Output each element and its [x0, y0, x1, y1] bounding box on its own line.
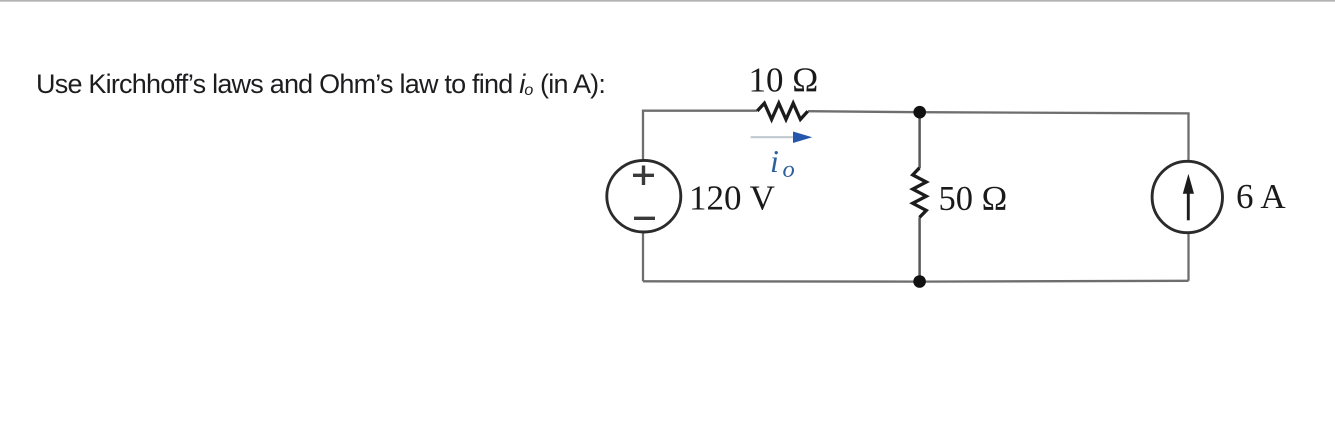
node b junction dot (bottom) — [913, 275, 926, 288]
svg-text:120 V: 120 V — [689, 179, 775, 218]
svg-text:i: i — [770, 143, 779, 179]
wire middle branch top (node a to resistor R2) — [918, 112, 921, 168]
resistor R1 zigzag (10 ohm) — [757, 103, 808, 119]
node a junction dot (top) — [913, 106, 926, 119]
wire right-bottom (current source to bottom rail) — [1187, 232, 1189, 281]
svg-text:10 Ω: 10 Ω — [749, 61, 819, 100]
wire bottom rail — [643, 280, 1189, 283]
voltage source plus sign — [633, 166, 654, 186]
current source I1 circle — [1152, 161, 1222, 232]
resistor R2 zigzag (50 ohm) — [913, 168, 927, 218]
wire left-bottom (source bottom to bottom rail) — [642, 231, 644, 281]
current arrow i_o head — [793, 132, 812, 144]
wire left vertical (source to top-left corner) — [643, 111, 757, 161]
wire top (resistor R1 to node a and to top-right corner) — [808, 111, 1189, 161]
svg-text:o: o — [783, 156, 795, 183]
voltage source minus sign — [634, 217, 655, 220]
current source arrow head — [1183, 174, 1194, 194]
svg-text:50 Ω: 50 Ω — [939, 180, 1008, 218]
voltage source V1 circle — [607, 160, 681, 232]
wire middle branch bottom (resistor R2 to node b) — [918, 217, 921, 281]
current label i_o — [770, 143, 795, 183]
svg-text:6 A: 6 A — [1236, 177, 1286, 216]
current arrow i_o shaft — [751, 136, 794, 138]
current source arrow shaft — [1187, 192, 1190, 220]
